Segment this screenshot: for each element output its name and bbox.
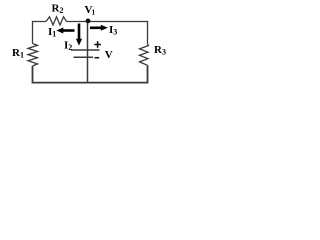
battery V bottom plate [74,56,94,58]
battery V top plate [71,49,100,51]
resistor R1 [28,44,38,67]
svg-text:V: V [105,49,113,61]
battery minus sign [95,57,100,59]
current arrow I3 [90,25,108,31]
wire battery branch [87,22,89,83]
current arrow I2 [76,24,82,46]
resistor R3 [140,44,149,66]
current arrow I1 [56,28,74,34]
wire left-bottom [33,66,88,83]
node V1 dot [86,19,91,24]
wire top-left segment [33,22,47,44]
resistor R2 [46,17,67,25]
wire right-bottom [88,65,148,82]
battery plus sign [94,41,101,47]
wire top-right segment [67,22,148,44]
